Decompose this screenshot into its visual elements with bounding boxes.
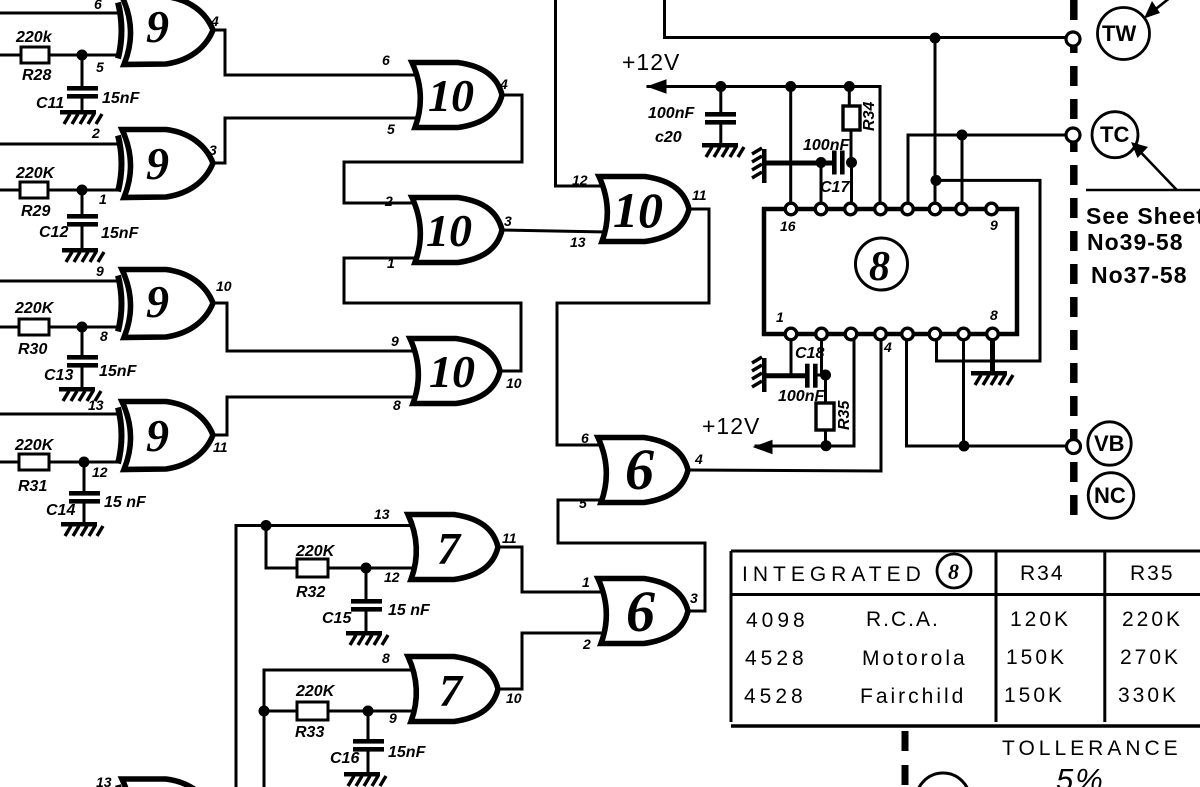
svg-text:16: 16 <box>780 218 796 234</box>
svg-text:220K: 220K <box>14 300 55 317</box>
svg-text:8: 8 <box>948 559 959 584</box>
svg-text:5%: 5% <box>1056 762 1105 787</box>
svg-text:4: 4 <box>499 76 508 92</box>
svg-text:220K: 220K <box>295 543 336 560</box>
svg-text:3: 3 <box>504 213 512 229</box>
svg-text:9: 9 <box>146 276 169 327</box>
svg-text:4528: 4528 <box>744 685 807 708</box>
svg-text:4528: 4528 <box>745 647 808 670</box>
svg-text:R33: R33 <box>295 724 324 741</box>
svg-text:270K: 270K <box>1120 646 1181 669</box>
svg-text:13: 13 <box>96 774 112 787</box>
svg-text:100nF: 100nF <box>803 137 850 154</box>
svg-text:4: 4 <box>883 339 892 355</box>
svg-text:13: 13 <box>88 397 104 413</box>
svg-text:6: 6 <box>626 579 655 644</box>
svg-text:R31: R31 <box>18 478 47 495</box>
svg-text:100nF: 100nF <box>648 105 695 122</box>
svg-text:11: 11 <box>213 439 228 455</box>
svg-text:INTEGRATED: INTEGRATED <box>742 563 926 586</box>
svg-text:10: 10 <box>506 690 522 706</box>
svg-text:R28: R28 <box>22 67 51 84</box>
svg-text:7: 7 <box>439 665 464 716</box>
svg-text:10: 10 <box>613 182 663 238</box>
svg-text:150K: 150K <box>1006 646 1067 669</box>
svg-text:9: 9 <box>990 217 998 233</box>
svg-text:15nF: 15nF <box>101 225 140 242</box>
svg-text:7: 7 <box>437 523 462 574</box>
svg-text:TW: TW <box>1102 21 1136 46</box>
svg-text:9: 9 <box>146 138 169 189</box>
svg-text:10: 10 <box>506 375 522 391</box>
svg-text:9: 9 <box>146 1 169 52</box>
svg-text:C13: C13 <box>44 367 73 384</box>
svg-text:15nF: 15nF <box>102 90 141 107</box>
svg-text:8: 8 <box>100 328 108 344</box>
svg-text:10: 10 <box>428 70 474 121</box>
svg-text:3: 3 <box>690 590 698 606</box>
svg-text:1: 1 <box>99 191 107 207</box>
svg-text:1: 1 <box>776 309 784 325</box>
svg-text:R29: R29 <box>21 203 50 220</box>
svg-text:220K: 220K <box>295 683 336 700</box>
svg-text:C17: C17 <box>820 179 850 196</box>
svg-text:9: 9 <box>391 333 399 349</box>
svg-text:C14: C14 <box>46 502 75 519</box>
svg-text:R34: R34 <box>861 102 878 131</box>
svg-text:2: 2 <box>582 636 591 652</box>
svg-text:2: 2 <box>384 193 393 209</box>
svg-text:9: 9 <box>96 263 104 279</box>
svg-text:15nF: 15nF <box>99 363 138 380</box>
svg-text:6: 6 <box>625 437 654 502</box>
svg-text:+12V: +12V <box>622 49 680 75</box>
svg-text:8: 8 <box>393 397 401 413</box>
svg-text:330K: 330K <box>1118 684 1179 707</box>
svg-text:C11: C11 <box>36 95 64 112</box>
svg-text:R30: R30 <box>18 341 47 358</box>
svg-text:10: 10 <box>426 205 472 256</box>
svg-text:5: 5 <box>96 59 104 75</box>
svg-text:8: 8 <box>869 244 890 290</box>
svg-text:15 nF: 15 nF <box>388 602 431 619</box>
svg-text:150K: 150K <box>1004 684 1065 707</box>
svg-text:No37-58: No37-58 <box>1091 262 1187 288</box>
svg-text:8: 8 <box>382 650 390 666</box>
svg-text:11: 11 <box>692 187 707 203</box>
svg-text:5: 5 <box>387 121 395 137</box>
svg-text:TC: TC <box>1100 122 1129 147</box>
svg-text:VB: VB <box>1094 431 1125 456</box>
svg-text:4: 4 <box>694 451 703 467</box>
svg-text:220k: 220k <box>15 29 53 46</box>
svg-text:R.C.A.: R.C.A. <box>866 608 940 631</box>
svg-text:5: 5 <box>579 495 587 511</box>
svg-text:R35: R35 <box>1130 562 1175 585</box>
svg-text:100nF: 100nF <box>778 388 825 405</box>
svg-text:1: 1 <box>582 574 590 590</box>
svg-text:13: 13 <box>374 506 390 522</box>
svg-text:220K: 220K <box>14 437 55 454</box>
svg-text:9: 9 <box>146 410 169 461</box>
svg-text:C16: C16 <box>330 750 359 767</box>
svg-text:8: 8 <box>990 307 998 323</box>
svg-text:10: 10 <box>216 278 232 294</box>
svg-text:R34: R34 <box>1020 562 1065 585</box>
svg-text:220K: 220K <box>1122 608 1183 631</box>
svg-text:TOLLERANCE: TOLLERANCE <box>1002 737 1182 760</box>
svg-text:12: 12 <box>572 172 588 188</box>
svg-text:c20: c20 <box>655 129 682 146</box>
svg-text:1: 1 <box>387 255 395 271</box>
svg-text:4098: 4098 <box>746 609 809 632</box>
svg-text:6: 6 <box>581 430 589 446</box>
svg-text:9: 9 <box>389 710 397 726</box>
svg-text:4: 4 <box>210 13 219 29</box>
svg-text:R32: R32 <box>296 584 325 601</box>
svg-text:+12V: +12V <box>702 413 760 439</box>
svg-text:13: 13 <box>570 234 586 250</box>
svg-text:12: 12 <box>384 569 400 585</box>
svg-text:220K: 220K <box>15 165 56 182</box>
svg-text:120K: 120K <box>1010 608 1071 631</box>
svg-text:15nF: 15nF <box>388 744 427 761</box>
svg-text:15 nF: 15 nF <box>104 494 147 511</box>
svg-text:6: 6 <box>382 52 390 68</box>
svg-text:Fairchild: Fairchild <box>860 685 966 708</box>
svg-text:6: 6 <box>94 0 102 12</box>
svg-text:3: 3 <box>209 142 217 158</box>
svg-text:C15: C15 <box>322 610 352 627</box>
svg-text:10: 10 <box>429 346 475 397</box>
svg-text:No39-58: No39-58 <box>1087 229 1183 255</box>
svg-text:Motorola: Motorola <box>862 647 968 670</box>
svg-text:R35: R35 <box>836 400 853 430</box>
svg-text:11: 11 <box>502 530 517 546</box>
svg-text:C12: C12 <box>39 224 68 241</box>
svg-text:C18: C18 <box>795 345 824 362</box>
svg-text:NC: NC <box>1094 483 1126 508</box>
svg-text:See Sheet: See Sheet <box>1086 203 1200 229</box>
svg-text:2: 2 <box>91 125 100 141</box>
svg-text:12: 12 <box>92 464 108 480</box>
